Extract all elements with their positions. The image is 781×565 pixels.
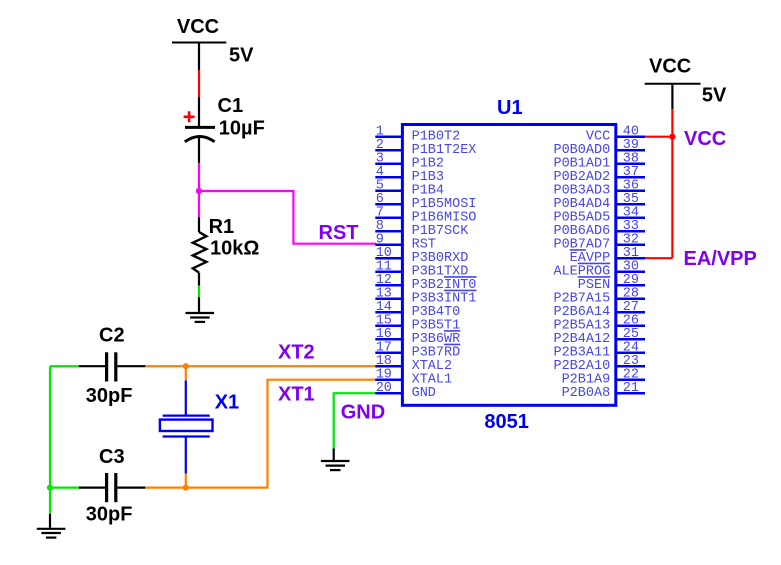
wire to R1 top (black) [198,217,200,232]
overline on pin 31 label [570,249,586,251]
svg-text:C1: C1 [218,95,244,117]
wire C1 to RST node (magenta) [198,163,200,191]
pin 17 stub [375,351,402,354]
pin 8 stub [375,230,402,233]
wire RST node to R1 (magenta) [198,191,200,217]
wire to ground (black) [49,514,51,528]
pin 40 stub [616,135,645,138]
pin 30 stub [616,270,645,273]
svg-text:GND: GND [412,386,436,401]
svg-text:10µF: 10µF [219,117,265,139]
svg-text:C3: C3 [99,446,125,468]
wire to pin 31 (red) [645,257,672,259]
pin 23 stub [616,365,645,368]
svg-text:8051: 8051 [484,411,529,433]
pin 29 stub [616,284,645,287]
svg-text:20: 20 [376,381,392,396]
svg-text:10kΩ: 10kΩ [210,237,259,259]
pin 36 stub [616,189,645,192]
wire VCC bar down (black) [671,85,673,110]
overline on pin 12 label [444,276,477,278]
svg-text:30pF: 30pF [86,385,133,407]
pin 12 stub [375,284,402,287]
pin 2 stub [375,149,402,152]
pin 16 stub [375,338,402,341]
pin 1 stub [375,135,402,138]
wire crystal bottom (orange) [185,474,187,488]
junction XT1 at crystal bottom [183,485,189,491]
pin 7 stub [375,216,402,219]
svg-text:XT1: XT1 [278,384,315,406]
junction RST node [196,188,202,194]
pin 31 stub [616,257,645,260]
pin 11 stub [375,270,402,273]
wire left rail vertical (green) [49,366,51,487]
overline on pin 13 label [444,289,477,291]
junction left rail at C3 [47,485,53,491]
crystal X1 [160,416,213,437]
svg-text:VCC: VCC [649,56,691,78]
pin 27 stub [616,311,645,314]
pin 13 stub [375,297,402,300]
pin 18 stub [375,365,402,368]
pin 14 stub [375,311,402,314]
junction XT2 at crystal top [183,363,189,369]
ground (below R1) [186,313,215,322]
wire XT1 net (orange) to pin 19 [145,380,376,488]
wire C2 right plate (black) [117,365,145,367]
wire R1 to ground (black) [198,273,200,286]
pin 5 stub [375,189,402,192]
svg-text:C2: C2 [99,325,125,347]
wire VCC to C1 (black) [198,44,200,71]
pin 33 stub [616,230,645,233]
svg-text:21: 21 [623,381,639,396]
wire C3 right plate (black) [117,487,145,489]
pin 19 stub [375,378,402,381]
overline on pin 16 label [444,330,460,332]
power VCC (top-right) [645,83,701,85]
pin 37 stub [616,176,645,179]
capacitor C3 [107,473,116,502]
overline on pin 17 label [444,343,460,345]
wire VCC node down to EA/VPP (red) [671,137,673,259]
capacitor C2 [107,352,116,381]
svg-text:5V: 5V [702,85,727,107]
wire crystal top (blue) [185,381,187,415]
wire VCC down (red) [671,109,673,136]
pin 10 stub [375,257,402,260]
svg-text:5V: 5V [229,45,254,67]
power VCC (top-left) [172,42,226,44]
svg-text:R1: R1 [209,216,235,238]
svg-text:RST: RST [319,222,359,244]
overline on pin 30 label [578,262,610,264]
pin 20 stub [375,392,402,395]
pin 22 stub [616,378,645,381]
resistor R1 [193,232,207,273]
wire red to C1 plate (black) [198,97,200,126]
op IC U1 8051 body [402,125,615,406]
svg-text:30pF: 30pF [86,504,133,526]
svg-text:VCC: VCC [684,128,726,150]
wire XT2 net (orange) to pin 18 [145,365,376,367]
pin 32 stub [616,243,645,246]
junction VCC node [669,134,675,140]
overline on pin 29 label [578,276,610,278]
pin 21 stub [616,392,645,395]
capacitor C1 [185,127,215,141]
pin 15 stub [375,324,402,327]
pin 24 stub [616,351,645,354]
ground (below GND) [321,461,350,470]
wire to C2 left plate (black) [79,365,105,367]
pin 3 stub [375,162,402,165]
wire crystal top (orange segment) [185,366,187,380]
wire GND pin 20 (green) [334,393,376,448]
pin 39 stub [616,149,645,152]
pin 26 stub [616,324,645,327]
pin 4 stub [375,176,402,179]
wire crystal bottom (blue) [185,438,187,474]
svg-text:U1: U1 [497,97,523,119]
pin 9 stub [375,243,402,246]
svg-text:VCC: VCC [177,16,219,38]
wire to C3 left plate (black) [79,487,105,489]
pin 28 stub [616,297,645,300]
wire RST net to pin 9 [199,191,376,244]
wire rail to ground (green) [49,488,51,514]
pin 6 stub [375,203,402,206]
wire green to ground (black) [198,297,200,312]
wire VCC to C1 (red segment) [198,70,200,97]
wire rail to C3 (green) [50,487,79,489]
svg-text:P2B0A8: P2B0A8 [562,386,611,401]
C1 polarity plus sign [184,111,195,122]
svg-text:XT2: XT2 [278,342,315,364]
wire R1 to ground (green segment) [198,286,200,297]
wire pin 40 to VCC node (red) [645,136,672,138]
svg-text:X1: X1 [215,392,239,414]
pin 25 stub [616,338,645,341]
pin 34 stub [616,216,645,219]
pin 38 stub [616,162,645,165]
wire to ground stub (black) [333,448,335,460]
ground (bottom-left) [37,529,66,538]
wire left rail to C2 (green) [50,365,79,367]
svg-text:GND: GND [341,402,385,424]
wire C1 to RST node (black) [198,137,200,163]
pin 35 stub [616,203,645,206]
svg-text:EA/VPP: EA/VPP [684,248,757,270]
